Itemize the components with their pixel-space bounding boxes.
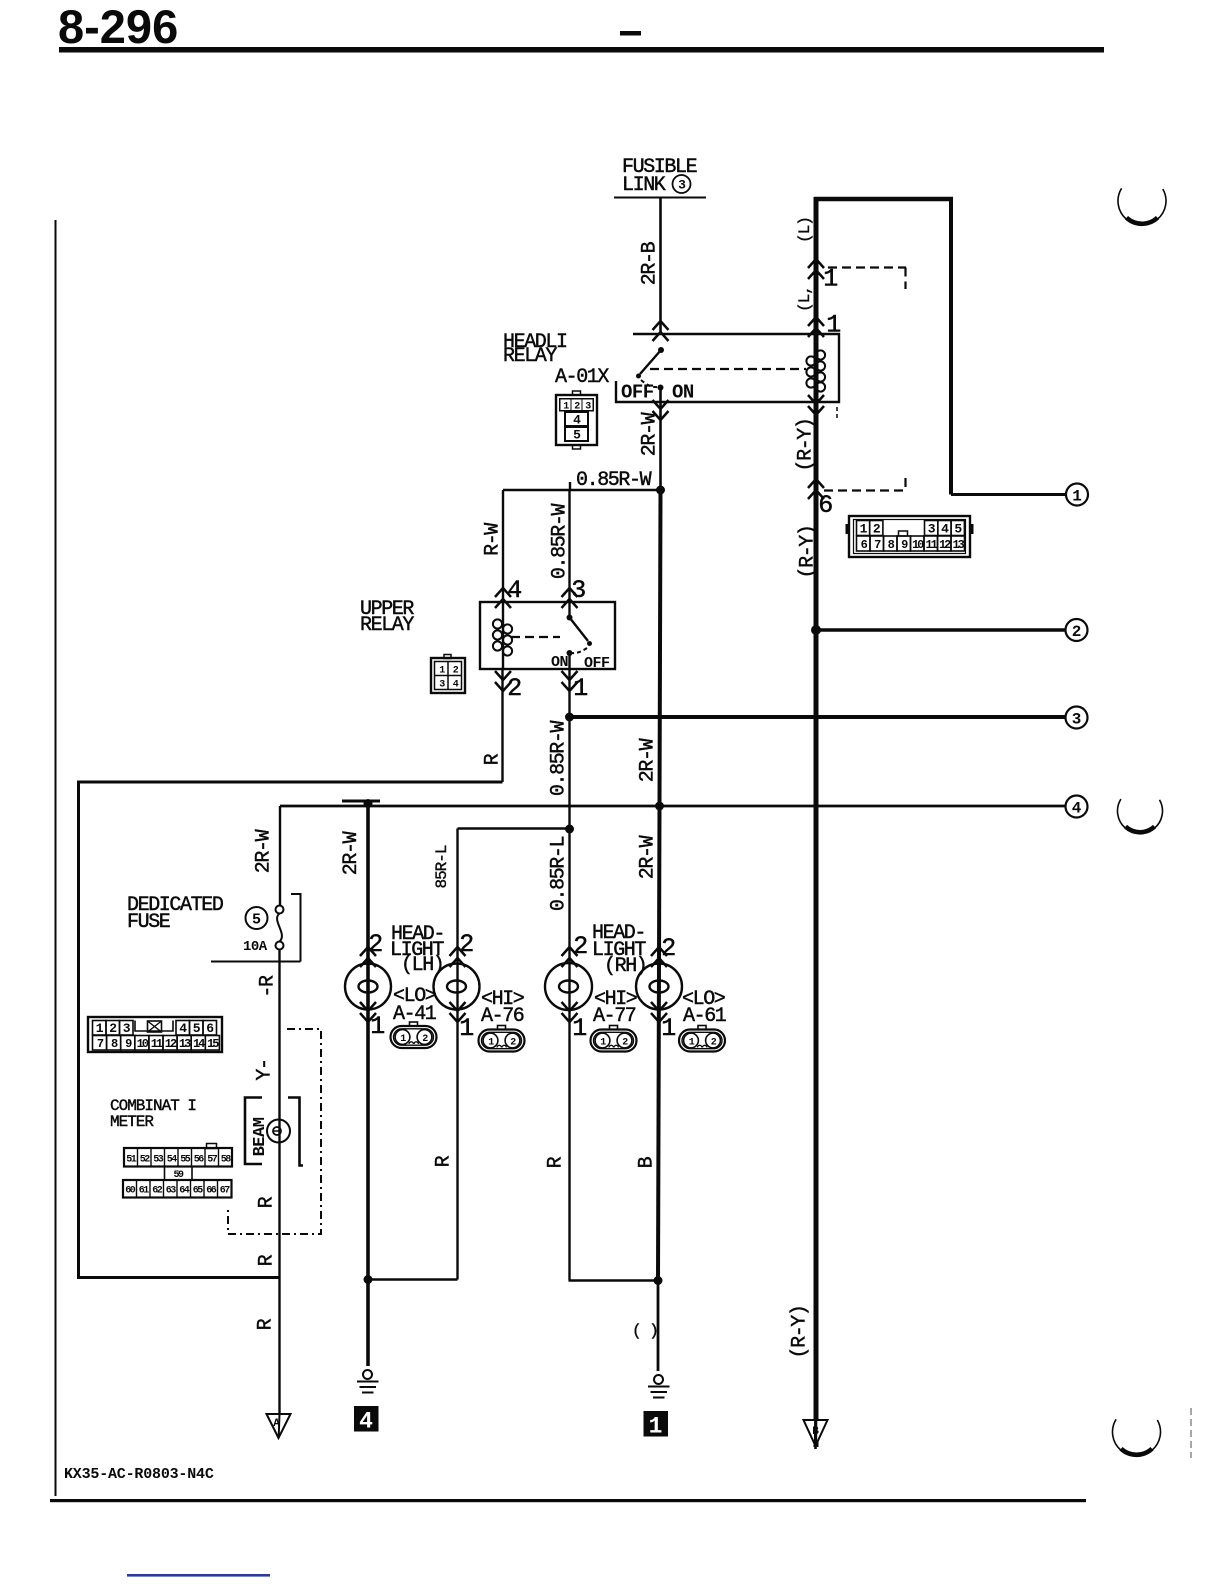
svg-text:ON: ON <box>551 654 569 671</box>
svg-text:52: 52 <box>140 1155 151 1166</box>
svg-text:B: B <box>812 1426 819 1438</box>
svg-text:A-61: A-61 <box>683 1005 727 1028</box>
svg-text:13: 13 <box>952 538 964 552</box>
svg-text:4: 4 <box>507 576 521 605</box>
svg-text:5: 5 <box>954 522 962 537</box>
svg-text:1: 1 <box>370 1012 384 1041</box>
svg-text:KX35-AC-R0803-N4C: KX35-AC-R0803-N4C <box>64 1466 214 1483</box>
svg-text:2: 2 <box>661 934 675 963</box>
svg-text:1: 1 <box>860 522 868 537</box>
svg-text:FUSE: FUSE <box>127 911 170 934</box>
svg-text:7: 7 <box>874 538 881 552</box>
svg-text:2: 2 <box>1072 623 1082 641</box>
svg-text:Y-: Y- <box>254 1059 277 1080</box>
svg-text:R: R <box>256 1196 279 1208</box>
svg-text:2: 2 <box>507 674 521 703</box>
svg-text:B: B <box>636 1156 659 1168</box>
svg-text:6: 6 <box>818 491 832 520</box>
svg-text:12: 12 <box>939 538 951 552</box>
svg-text:3: 3 <box>678 178 686 193</box>
svg-text:METER: METER <box>110 1113 154 1131</box>
svg-text:6: 6 <box>861 538 868 552</box>
svg-text:57: 57 <box>207 1155 218 1166</box>
svg-text:53: 53 <box>153 1155 164 1166</box>
svg-text:2: 2 <box>368 930 382 959</box>
svg-text:(R-Y): (R-Y) <box>795 418 818 471</box>
svg-text:R: R <box>255 1318 278 1330</box>
svg-text:2R-B: 2R-B <box>639 241 662 285</box>
svg-text:67: 67 <box>220 1186 231 1197</box>
svg-text:62: 62 <box>152 1186 163 1197</box>
svg-text:BEAM: BEAM <box>251 1117 270 1156</box>
svg-text:2R-W: 2R-W <box>637 835 660 879</box>
svg-text:5: 5 <box>193 1021 201 1036</box>
svg-text:10: 10 <box>137 1037 149 1051</box>
svg-text:10: 10 <box>912 538 924 552</box>
svg-text:4: 4 <box>1072 800 1082 818</box>
svg-text:8: 8 <box>111 1037 118 1051</box>
svg-text:61: 61 <box>139 1186 150 1197</box>
svg-text:2R-W: 2R-W <box>253 829 276 873</box>
svg-text:8-296: 8-296 <box>58 0 178 53</box>
svg-text:0.85R-W: 0.85R-W <box>548 720 571 796</box>
svg-text:1: 1 <box>823 265 837 294</box>
svg-text:R: R <box>433 1155 456 1167</box>
svg-text:ON: ON <box>672 382 694 404</box>
svg-text:1: 1 <box>572 1014 586 1043</box>
svg-text:5: 5 <box>573 428 581 443</box>
svg-text:RELAY: RELAY <box>360 614 414 637</box>
svg-text:0.85R-W: 0.85R-W <box>549 503 572 579</box>
svg-text:58: 58 <box>221 1155 232 1166</box>
svg-text:9: 9 <box>125 1037 132 1051</box>
svg-text:65: 65 <box>193 1186 204 1197</box>
svg-text:(R-Y): (R-Y) <box>789 1305 812 1358</box>
svg-text:( ): ( ) <box>632 1322 658 1340</box>
svg-text:12: 12 <box>165 1037 177 1051</box>
svg-text:10A: 10A <box>243 939 268 955</box>
svg-text:2R-W: 2R-W <box>340 831 363 875</box>
svg-text:63: 63 <box>166 1186 177 1197</box>
svg-text:8: 8 <box>888 538 895 552</box>
svg-text:1: 1 <box>1072 488 1082 506</box>
svg-text:14: 14 <box>193 1037 205 1051</box>
svg-text:1: 1 <box>459 1014 473 1043</box>
svg-text:OFF: OFF <box>584 655 610 672</box>
svg-text:11: 11 <box>925 538 937 552</box>
svg-text:2: 2 <box>573 932 587 961</box>
svg-text:2: 2 <box>459 930 473 959</box>
svg-text:56: 56 <box>194 1155 205 1166</box>
svg-text:R: R <box>545 1156 568 1168</box>
svg-text:13: 13 <box>179 1037 191 1051</box>
svg-text:A: A <box>273 1418 280 1430</box>
svg-text:LINK: LINK <box>622 174 666 197</box>
svg-text:1: 1 <box>573 674 587 703</box>
svg-text:RELAY: RELAY <box>503 345 557 368</box>
svg-text:R-W: R-W <box>482 523 505 556</box>
svg-text:1: 1 <box>96 1021 104 1036</box>
svg-text:51: 51 <box>126 1155 137 1166</box>
svg-text:A-77: A-77 <box>593 1005 636 1028</box>
svg-text:15: 15 <box>207 1037 219 1051</box>
svg-text:60: 60 <box>125 1186 136 1197</box>
svg-text:4: 4 <box>359 1409 373 1435</box>
svg-text:3: 3 <box>123 1021 131 1036</box>
svg-text:4: 4 <box>573 413 581 428</box>
svg-text:0.85R-W: 0.85R-W <box>576 469 652 492</box>
svg-text:(L,: (L, <box>796 286 814 312</box>
svg-text:2: 2 <box>873 522 881 537</box>
svg-text:3: 3 <box>1072 711 1082 729</box>
svg-text:55: 55 <box>180 1155 191 1166</box>
svg-text:54: 54 <box>167 1155 178 1166</box>
svg-text:4: 4 <box>179 1021 187 1036</box>
svg-text:64: 64 <box>179 1186 190 1197</box>
svg-text:66: 66 <box>206 1186 217 1197</box>
svg-text:7: 7 <box>97 1037 104 1051</box>
svg-text:85R-L: 85R-L <box>433 845 451 888</box>
svg-text:3: 3 <box>928 522 936 537</box>
svg-text:1: 1 <box>661 1014 675 1043</box>
svg-text:R: R <box>482 753 505 765</box>
svg-text:A-76: A-76 <box>481 1005 524 1028</box>
svg-text:R: R <box>256 1254 279 1266</box>
svg-text:(L): (L) <box>796 217 814 243</box>
svg-text:4: 4 <box>941 522 949 537</box>
svg-text:2R-W: 2R-W <box>637 738 660 782</box>
svg-text:A-01X: A-01X <box>555 366 609 389</box>
svg-text:2: 2 <box>109 1021 117 1036</box>
svg-text:5: 5 <box>252 912 261 929</box>
svg-text:2R-W: 2R-W <box>639 412 662 456</box>
svg-text:9: 9 <box>901 538 908 552</box>
svg-text:11: 11 <box>151 1037 163 1051</box>
svg-text:6: 6 <box>206 1021 214 1036</box>
svg-text:1: 1 <box>649 1414 663 1440</box>
svg-text:3: 3 <box>571 576 585 605</box>
svg-text:-R: -R <box>257 975 280 998</box>
svg-text:0.85R-L: 0.85R-L <box>548 836 571 911</box>
svg-text:(R-Y): (R-Y) <box>797 525 820 578</box>
